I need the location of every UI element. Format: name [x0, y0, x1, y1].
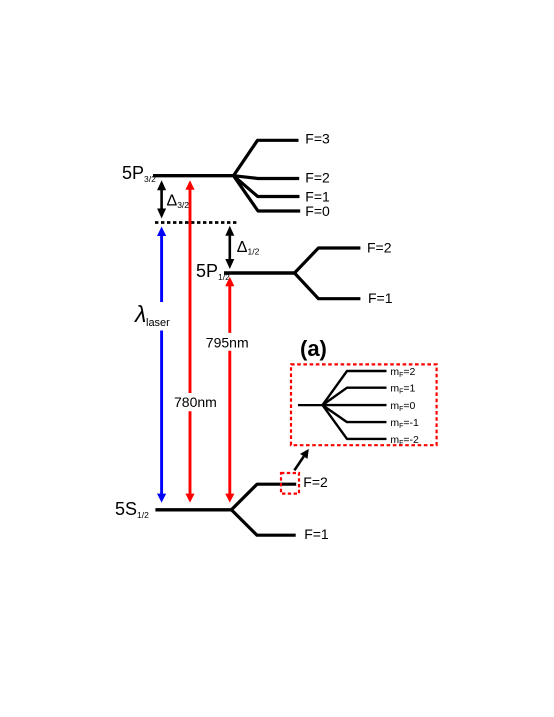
- svg-text:F=2: F=2: [303, 474, 328, 490]
- inset mF=0 level: [323, 404, 387, 406]
- svg-text:F=2: F=2: [367, 239, 392, 255]
- svg-text:mF=2: mF=2: [390, 366, 415, 379]
- delta 3/2 double arrow: [157, 180, 166, 218]
- svg-text:laser: laser: [146, 317, 170, 329]
- inset mF=1 level: [323, 388, 387, 405]
- level F=2 branch: [234, 176, 300, 179]
- svg-text:F=0: F=0: [305, 203, 330, 219]
- small red dashed zoom box on F=2: [281, 473, 299, 494]
- inset entry line: [298, 404, 323, 406]
- level 5P1/2 main line: [224, 271, 295, 274]
- level 5S1/2 F=1 branch: [231, 510, 295, 535]
- svg-text:mF=-2: mF=-2: [390, 434, 419, 447]
- svg-text:795nm: 795nm: [206, 335, 249, 351]
- svg-text:F=2: F=2: [305, 170, 330, 186]
- level 5S1/2 F=2 branch: [231, 484, 296, 510]
- level F=3 branch: [234, 140, 299, 175]
- svg-text:(a): (a): [300, 336, 327, 361]
- arrow from zoom box to inset: [294, 449, 308, 470]
- delta 1/2 double arrow: [225, 226, 234, 269]
- level F=1 branch: [234, 176, 300, 197]
- svg-text:mF=1: mF=1: [390, 383, 415, 396]
- dashed virtual level: [155, 221, 237, 224]
- svg-text:F=3: F=3: [305, 131, 330, 147]
- inset mF=2 level: [323, 371, 387, 405]
- svg-text:F=1: F=1: [368, 290, 393, 306]
- inset mF=-1 level: [323, 405, 387, 422]
- svg-text:λ: λ: [133, 301, 146, 327]
- svg-text:mF=-1: mF=-1: [390, 417, 419, 430]
- level 5P1/2 F=2 branch: [295, 248, 361, 273]
- red 780nm double arrow: [185, 180, 194, 502]
- level 5P1/2 F=1 branch: [295, 273, 361, 299]
- svg-text:mF=0: mF=0: [390, 400, 415, 413]
- blue laser double arrow: [157, 227, 166, 503]
- level 5P3/2 main line: [153, 174, 234, 177]
- inset mF=-2 level: [323, 405, 387, 439]
- svg-text:780nm: 780nm: [174, 394, 217, 410]
- inset red dashed box: [291, 364, 437, 445]
- svg-text:F=1: F=1: [304, 526, 329, 542]
- red 795nm double arrow: [225, 277, 234, 503]
- level F=0 branch: [234, 176, 301, 211]
- level 5S1/2 main line: [155, 508, 231, 511]
